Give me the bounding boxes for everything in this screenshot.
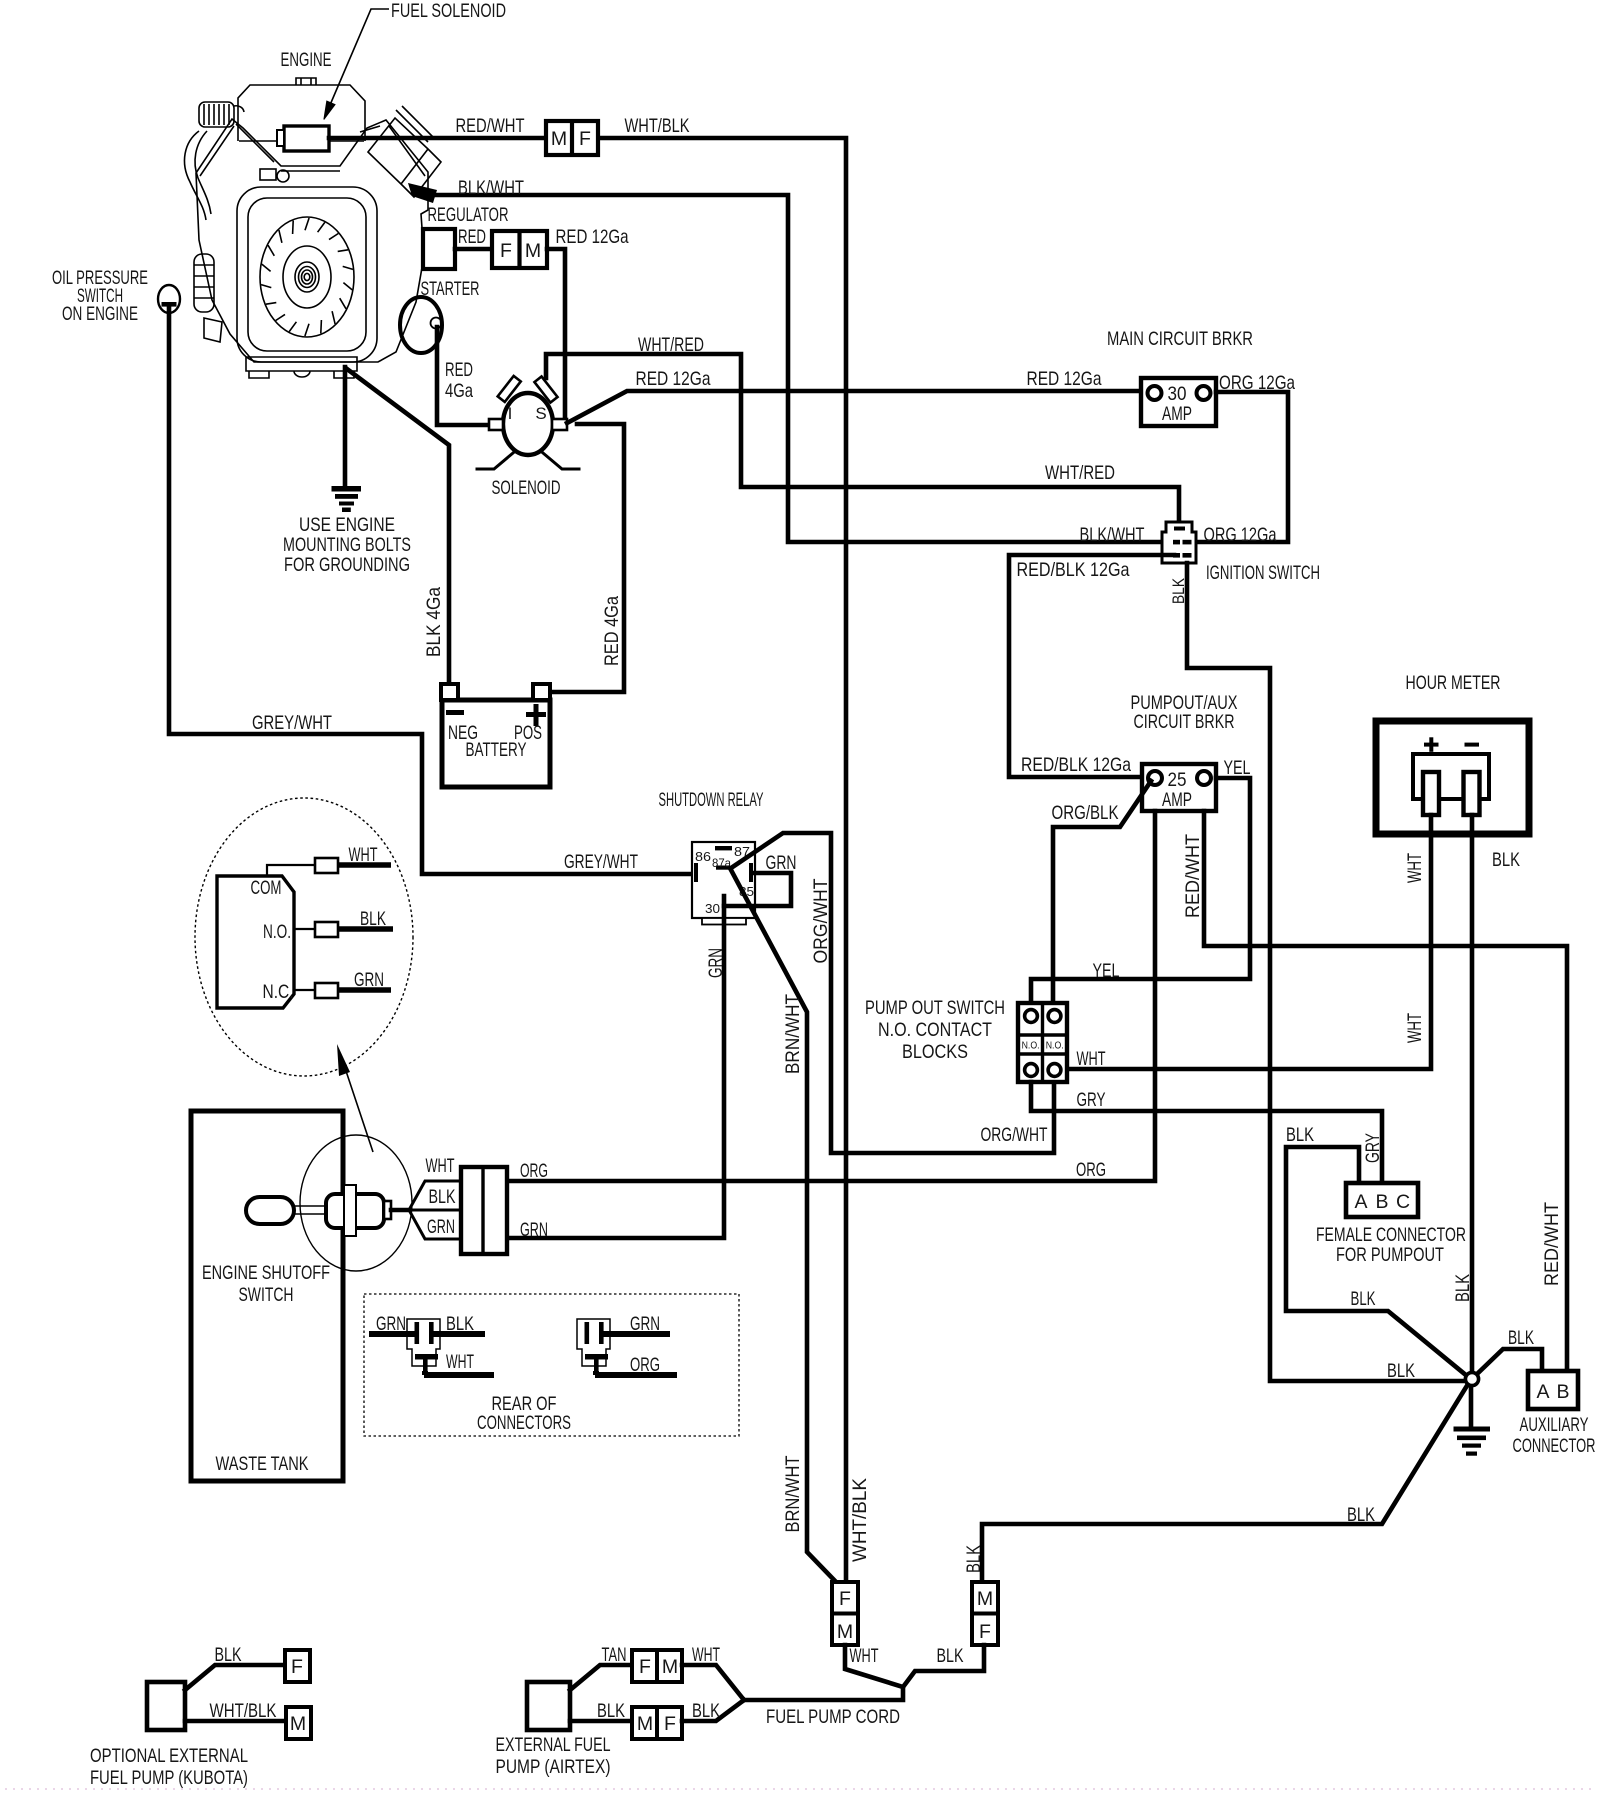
svg-text:GRN: GRN xyxy=(427,1216,455,1238)
svg-text:STARTER: STARTER xyxy=(421,278,480,300)
svg-text:M: M xyxy=(977,1588,993,1610)
svg-text:ON ENGINE: ON ENGINE xyxy=(62,303,138,325)
svg-text:RED/BLK 12Ga: RED/BLK 12Ga xyxy=(1021,754,1131,776)
svg-text:GREY/WHT: GREY/WHT xyxy=(252,712,332,734)
wire BLK ignition switch to junction xyxy=(1187,563,1466,1381)
svg-text:WHT: WHT xyxy=(349,844,378,866)
svg-text:30: 30 xyxy=(705,901,720,916)
regulator xyxy=(423,229,455,269)
svg-text:F: F xyxy=(579,128,591,150)
wire RED 12Ga solenoid to main circuit breaker xyxy=(567,391,1141,423)
wire RED 12Ga regulator connector to solenoid xyxy=(547,249,565,420)
svg-text:BLK: BLK xyxy=(446,1313,474,1335)
wire WHT connector to fuel pump cord xyxy=(845,1645,903,1687)
svg-text:RED/WHT: RED/WHT xyxy=(1182,834,1204,918)
wire WHT/BLK from M|F down to F connector xyxy=(598,138,846,1580)
wire WHT hour meter to pump out switch xyxy=(1062,815,1431,1069)
svg-text:CONNECTORS: CONNECTORS xyxy=(477,1412,571,1434)
svg-text:ORG 12Ga: ORG 12Ga xyxy=(1204,524,1277,546)
wire GRN relay pin85 loop xyxy=(724,873,791,906)
svg-text:BLK: BLK xyxy=(1169,577,1188,604)
svg-text:N.O. CONTACT: N.O. CONTACT xyxy=(878,1019,992,1041)
wire WHT airtex to cord xyxy=(682,1665,744,1700)
svg-text:A: A xyxy=(1536,1381,1549,1403)
svg-text:CIRCUIT BRKR: CIRCUIT BRKR xyxy=(1134,711,1235,733)
detail ellipse xyxy=(195,798,413,1076)
svg-text:GRY: GRY xyxy=(1362,1133,1384,1163)
svg-text:BLK: BLK xyxy=(937,1645,964,1667)
shutoff switch internal detail xyxy=(217,876,294,1008)
svg-text:BLK: BLK xyxy=(1286,1124,1314,1146)
svg-text:30: 30 xyxy=(1168,383,1187,405)
svg-text:ENGINE SHUTOFF: ENGINE SHUTOFF xyxy=(202,1262,330,1284)
connector F (kubota) xyxy=(285,1650,310,1682)
svg-text:RED 4Ga: RED 4Ga xyxy=(601,596,623,666)
svg-text:IGNITION SWITCH: IGNITION SWITCH xyxy=(1206,562,1320,584)
external fuel pump (AIRTEX) xyxy=(527,1682,570,1730)
svg-text:F: F xyxy=(664,1713,676,1735)
svg-text:WHT/BLK: WHT/BLK xyxy=(625,115,690,137)
wire BLK rear connector 1 xyxy=(433,1331,485,1337)
wire ORG rear connector 2 xyxy=(595,1371,677,1375)
svg-text:BLK: BLK xyxy=(215,1644,242,1666)
shutoff switch connector xyxy=(461,1167,507,1254)
svg-text:EXTERNAL FUEL: EXTERNAL FUEL xyxy=(496,1734,611,1756)
svg-text:ORG 12Ga: ORG 12Ga xyxy=(1219,372,1295,394)
svg-text:BLK: BLK xyxy=(1351,1288,1376,1310)
svg-text:N.O.: N.O. xyxy=(263,921,291,943)
svg-text:FOR PUMPOUT: FOR PUMPOUT xyxy=(1336,1244,1444,1266)
svg-text:BLK: BLK xyxy=(1492,849,1520,871)
wire RED regulator to F|M xyxy=(455,247,492,252)
svg-text:PUMP OUT SWITCH: PUMP OUT SWITCH xyxy=(865,997,1005,1019)
wire BLK 4Ga engine to battery NEG xyxy=(347,369,449,684)
wire GRY pump out switch to female connector xyxy=(1031,1082,1382,1183)
svg-text:N.O.: N.O. xyxy=(1046,1040,1064,1052)
svg-text:A: A xyxy=(1354,1191,1367,1213)
svg-text:BRN/WHT: BRN/WHT xyxy=(782,1455,804,1532)
rear of connectors box xyxy=(364,1294,739,1436)
svg-text:ENGINE: ENGINE xyxy=(281,49,332,71)
svg-text:TAN: TAN xyxy=(602,1644,627,1666)
svg-text:FUEL SOLENOID: FUEL SOLENOID xyxy=(391,0,506,22)
wire BLK junction to auxiliary connector pin A xyxy=(1477,1349,1542,1374)
svg-text:SWITCH: SWITCH xyxy=(239,1284,294,1306)
svg-text:FUEL PUMP (KUBOTA): FUEL PUMP (KUBOTA) xyxy=(90,1767,248,1789)
wire WHT rear connector 1 xyxy=(424,1371,494,1375)
svg-text:ORG: ORG xyxy=(1076,1159,1106,1181)
svg-text:FUEL PUMP CORD: FUEL PUMP CORD xyxy=(766,1706,900,1728)
waste tank xyxy=(191,1111,343,1481)
svg-text:BLK: BLK xyxy=(963,1545,985,1573)
wire RED/WHT engine to M|F connector xyxy=(329,136,546,141)
svg-text:ORG/BLK: ORG/BLK xyxy=(1052,802,1119,824)
svg-text:RED: RED xyxy=(458,226,486,248)
pump out switch N.O. contact blocks xyxy=(1018,1003,1067,1082)
detail terminal BLK xyxy=(294,928,315,930)
connector F/M (vertical, brn-wht) xyxy=(832,1582,858,1645)
svg-text:M: M xyxy=(637,1713,653,1735)
svg-text:USE ENGINE: USE ENGINE xyxy=(299,514,395,536)
detail circle around toggle xyxy=(300,1135,412,1271)
auxiliary connector xyxy=(1528,1371,1578,1409)
svg-text:WHT/BLK: WHT/BLK xyxy=(210,1700,277,1722)
svg-text:GRN: GRN xyxy=(705,948,727,978)
wire GRN relay pin30 to shutoff switch connector xyxy=(507,896,724,1238)
svg-text:ORG/WHT: ORG/WHT xyxy=(810,878,832,963)
svg-text:ORG: ORG xyxy=(520,1160,548,1182)
starter xyxy=(400,297,442,353)
svg-text:RED: RED xyxy=(445,359,473,381)
svg-text:WHT: WHT xyxy=(446,1351,474,1373)
svg-text:SHUTDOWN RELAY: SHUTDOWN RELAY xyxy=(659,789,764,811)
svg-text:F: F xyxy=(639,1656,651,1678)
engine xyxy=(184,78,441,378)
svg-text:GRN: GRN xyxy=(520,1219,548,1241)
shutdown relay xyxy=(692,842,755,925)
svg-text:BRN/WHT: BRN/WHT xyxy=(782,994,804,1074)
svg-text:BLOCKS: BLOCKS xyxy=(902,1041,968,1063)
wire WHT/BLK kubota to M xyxy=(185,1719,286,1724)
svg-text:RED/BLK 12Ga: RED/BLK 12Ga xyxy=(1017,559,1130,581)
svg-text:AUXILIARY: AUXILIARY xyxy=(1520,1414,1589,1436)
fuel solenoid leader and label xyxy=(327,9,389,112)
svg-text:S: S xyxy=(535,404,546,423)
optional external fuel pump (KUBOTA) xyxy=(147,1682,185,1730)
svg-text:M: M xyxy=(837,1621,853,1643)
svg-text:M: M xyxy=(290,1713,306,1735)
solenoid xyxy=(477,376,579,469)
svg-text:BLK/WHT: BLK/WHT xyxy=(1080,524,1145,546)
oil pressure switch on engine xyxy=(158,285,180,313)
svg-text:BATTERY: BATTERY xyxy=(466,739,527,761)
switch wires fanout xyxy=(409,1181,461,1239)
detail terminal WHT xyxy=(267,865,315,876)
svg-text:YEL: YEL xyxy=(1093,960,1120,982)
svg-text:WHT: WHT xyxy=(1077,1048,1106,1070)
svg-text:ORG: ORG xyxy=(630,1354,660,1376)
svg-text:F: F xyxy=(979,1621,991,1643)
svg-text:AMP: AMP xyxy=(1162,789,1192,811)
wire TAN pump to F|M xyxy=(570,1665,632,1690)
svg-text:BLK/WHT: BLK/WHT xyxy=(458,177,524,199)
svg-text:OPTIONAL EXTERNAL: OPTIONAL EXTERNAL xyxy=(90,1745,248,1767)
svg-text:C: C xyxy=(1396,1191,1410,1213)
hour meter xyxy=(1376,721,1529,834)
svg-text:GRN: GRN xyxy=(630,1313,660,1335)
wire BLK connector to fuel pump cord xyxy=(903,1645,984,1687)
svg-text:SOLENOID: SOLENOID xyxy=(492,477,561,499)
engine shutoff switch (toggle) xyxy=(246,1185,407,1236)
wire RED 4Ga starter to solenoid xyxy=(437,327,487,425)
svg-text:GRN: GRN xyxy=(354,969,384,991)
svg-text:BLK: BLK xyxy=(1508,1327,1534,1349)
fuel pump cord xyxy=(744,1687,903,1700)
wire BLK airtex to cord xyxy=(682,1700,744,1721)
svg-text:WHT/BLK: WHT/BLK xyxy=(849,1478,871,1562)
svg-text:86: 86 xyxy=(695,849,711,864)
wire GRN rear connector 1 xyxy=(369,1331,415,1337)
wire ORG 12Ga breaker to ignition switch xyxy=(1196,392,1288,542)
wire BRN/WHT relay 87a to F connector xyxy=(731,870,836,1582)
svg-text:B: B xyxy=(1556,1381,1569,1403)
svg-text:WHT: WHT xyxy=(1404,853,1426,883)
junction node xyxy=(1465,1372,1478,1385)
connector F|M (airtex top) xyxy=(632,1650,682,1682)
svg-text:GRN: GRN xyxy=(766,852,797,874)
svg-text:BLK: BLK xyxy=(429,1186,456,1208)
engine ground symbol xyxy=(332,486,362,512)
svg-text:F: F xyxy=(291,1656,303,1678)
svg-text:WASTE TANK: WASTE TANK xyxy=(216,1453,309,1475)
connector M|F (airtex bottom) xyxy=(632,1707,682,1739)
svg-text:BLK: BLK xyxy=(1347,1504,1375,1526)
pumpout/aux circuit breaker 25 AMP xyxy=(1142,764,1216,811)
svg-text:GRY: GRY xyxy=(1077,1089,1106,1111)
svg-text:COM: COM xyxy=(251,877,282,899)
wire BLK kubota to F xyxy=(185,1665,285,1690)
wire BLK pump to M|F xyxy=(570,1719,632,1724)
svg-text:BLK: BLK xyxy=(692,1700,720,1722)
svg-text:BLK: BLK xyxy=(360,908,386,930)
svg-text:F: F xyxy=(500,240,512,262)
svg-text:MAIN CIRCUIT BRKR: MAIN CIRCUIT BRKR xyxy=(1107,328,1253,350)
svg-text:REGULATOR: REGULATOR xyxy=(428,204,509,226)
female connector for pumpout xyxy=(1346,1183,1418,1217)
wire BLK junction to ground xyxy=(1469,1386,1474,1426)
svg-text:WHT: WHT xyxy=(850,1645,879,1667)
wire BLK hour meter to junction xyxy=(1470,815,1475,1372)
wire ORG breaker to shutoff switch connector xyxy=(507,811,1155,1181)
ignition switch xyxy=(1162,522,1196,563)
svg-text:WHT/RED: WHT/RED xyxy=(1045,462,1115,484)
rear connector 2 xyxy=(577,1319,610,1373)
svg-text:PUMP (AIRTEX): PUMP (AIRTEX) xyxy=(496,1756,611,1778)
svg-text:ORG/WHT: ORG/WHT xyxy=(981,1124,1048,1146)
svg-text:GRN: GRN xyxy=(376,1313,406,1335)
ground symbol (auxiliary) xyxy=(1454,1427,1491,1456)
svg-text:M: M xyxy=(662,1656,678,1678)
svg-text:HOUR METER: HOUR METER xyxy=(1406,672,1501,694)
svg-text:RED/WHT: RED/WHT xyxy=(456,115,525,137)
svg-text:BLK: BLK xyxy=(597,1700,625,1722)
svg-text:WHT/RED: WHT/RED xyxy=(638,334,704,356)
svg-text:F: F xyxy=(839,1588,851,1610)
wire GRN rear connector 2 xyxy=(603,1331,670,1337)
svg-text:FOR GROUNDING: FOR GROUNDING xyxy=(284,554,410,576)
svg-text:WHT: WHT xyxy=(692,1644,720,1666)
wire RED/BLK 12Ga ignition to pumpout breaker xyxy=(1009,555,1174,777)
svg-text:RED 12Ga: RED 12Ga xyxy=(556,226,629,248)
wire ORG/WHT relay pin87a to pump out switch xyxy=(731,833,1054,1153)
detail terminal GRN xyxy=(294,989,315,991)
svg-text:BLK: BLK xyxy=(1387,1360,1415,1382)
svg-text:M: M xyxy=(525,240,541,262)
engine grounding wire xyxy=(343,367,348,484)
svg-text:RED 12Ga: RED 12Ga xyxy=(1027,368,1102,390)
connector M/F (vertical, blk) xyxy=(972,1582,998,1645)
wire RED/WHT breaker to auxiliary connector xyxy=(1204,811,1567,1371)
svg-text:YEL: YEL xyxy=(1224,757,1251,779)
main circuit breaker 30 AMP xyxy=(1141,378,1216,426)
detail leader arrow xyxy=(344,1065,373,1152)
svg-text:4Ga: 4Ga xyxy=(445,380,473,402)
svg-text:AMP: AMP xyxy=(1162,403,1192,425)
wire YEL breaker to pump out switch xyxy=(1031,778,1250,1004)
connector M (kubota) xyxy=(286,1707,311,1739)
svg-text:BLK 4Ga: BLK 4Ga xyxy=(423,587,445,657)
wire BLK female connector pin A xyxy=(1286,1147,1467,1376)
svg-text:WHT: WHT xyxy=(1404,1013,1426,1043)
svg-text:M: M xyxy=(551,128,567,150)
svg-text:GREY/WHT: GREY/WHT xyxy=(564,851,638,873)
wire ORG/BLK breaker to pump out switch xyxy=(1053,781,1151,1004)
BLK/WHT wire origin blob on engine xyxy=(408,183,437,203)
connector F|M (regulator) xyxy=(492,231,547,268)
scan artifact dotted line xyxy=(5,1788,1595,1790)
svg-text:FEMALE CONNECTOR: FEMALE CONNECTOR xyxy=(1316,1224,1466,1246)
connector M|F (fuel solenoid) xyxy=(546,121,598,155)
battery xyxy=(441,684,550,787)
svg-text:BLK: BLK xyxy=(1452,1274,1474,1302)
rear connector 1 xyxy=(407,1319,440,1373)
fuel solenoid (on engine) xyxy=(277,126,329,151)
svg-text:N.O.: N.O. xyxy=(1022,1040,1040,1052)
svg-text:I: I xyxy=(508,404,513,423)
wire RED 4Ga solenoid to battery POS xyxy=(552,424,624,692)
wire GREY/WHT oil pressure switch to shutdown relay pin 86 xyxy=(169,306,692,874)
svg-text:N.C.: N.C. xyxy=(263,981,294,1003)
svg-text:CONNECTOR: CONNECTOR xyxy=(1513,1435,1596,1457)
svg-text:RED/WHT: RED/WHT xyxy=(1541,1202,1563,1286)
svg-text:WHT: WHT xyxy=(426,1155,455,1177)
svg-text:B: B xyxy=(1375,1191,1388,1213)
svg-text:RED 12Ga: RED 12Ga xyxy=(636,368,711,390)
wire BLK/WHT engine to ignition switch xyxy=(435,195,1162,542)
svg-text:25: 25 xyxy=(1168,769,1187,791)
wire WHT/RED solenoid to ignition switch xyxy=(546,354,1179,522)
svg-text:MOUNTING BOLTS: MOUNTING BOLTS xyxy=(283,534,411,556)
wire BLK junction to fuel pump connectors xyxy=(982,1384,1468,1582)
